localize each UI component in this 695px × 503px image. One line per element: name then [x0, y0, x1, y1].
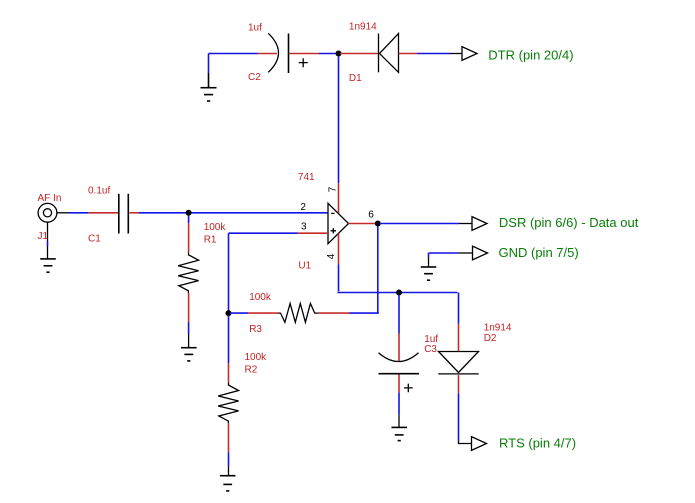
- svg-text:1n914: 1n914: [349, 22, 377, 33]
- svg-text:741: 741: [298, 172, 315, 183]
- svg-text:J1: J1: [38, 231, 49, 242]
- svg-text:C3: C3: [424, 344, 437, 355]
- svg-text:0.1uf: 0.1uf: [88, 185, 110, 196]
- svg-text:100k: 100k: [245, 352, 268, 363]
- svg-text:DSR (pin 6/6) - Data out: DSR (pin 6/6) - Data out: [499, 215, 639, 230]
- svg-text:100k: 100k: [204, 222, 227, 233]
- svg-text:1uf: 1uf: [248, 22, 262, 33]
- svg-text:R3: R3: [249, 324, 262, 335]
- svg-text:AF In: AF In: [38, 193, 62, 204]
- svg-text:C2: C2: [248, 72, 261, 83]
- svg-text:RTS (pin 4/7): RTS (pin 4/7): [499, 436, 576, 451]
- svg-text:DTR (pin 20/4): DTR (pin 20/4): [488, 48, 573, 63]
- svg-text:3: 3: [301, 222, 307, 233]
- svg-text:R2: R2: [245, 364, 258, 375]
- svg-text:C1: C1: [88, 233, 101, 244]
- svg-text:D2: D2: [484, 333, 497, 344]
- svg-text:U1: U1: [298, 261, 311, 272]
- svg-text:R1: R1: [204, 234, 217, 245]
- svg-text:4: 4: [326, 253, 337, 259]
- svg-text:2: 2: [300, 202, 306, 213]
- svg-text:6: 6: [368, 210, 374, 221]
- svg-text:D1: D1: [349, 73, 362, 84]
- svg-text:GND (pin 7/5): GND (pin 7/5): [499, 245, 579, 260]
- svg-text:100k: 100k: [249, 292, 272, 303]
- svg-text:7: 7: [327, 186, 338, 192]
